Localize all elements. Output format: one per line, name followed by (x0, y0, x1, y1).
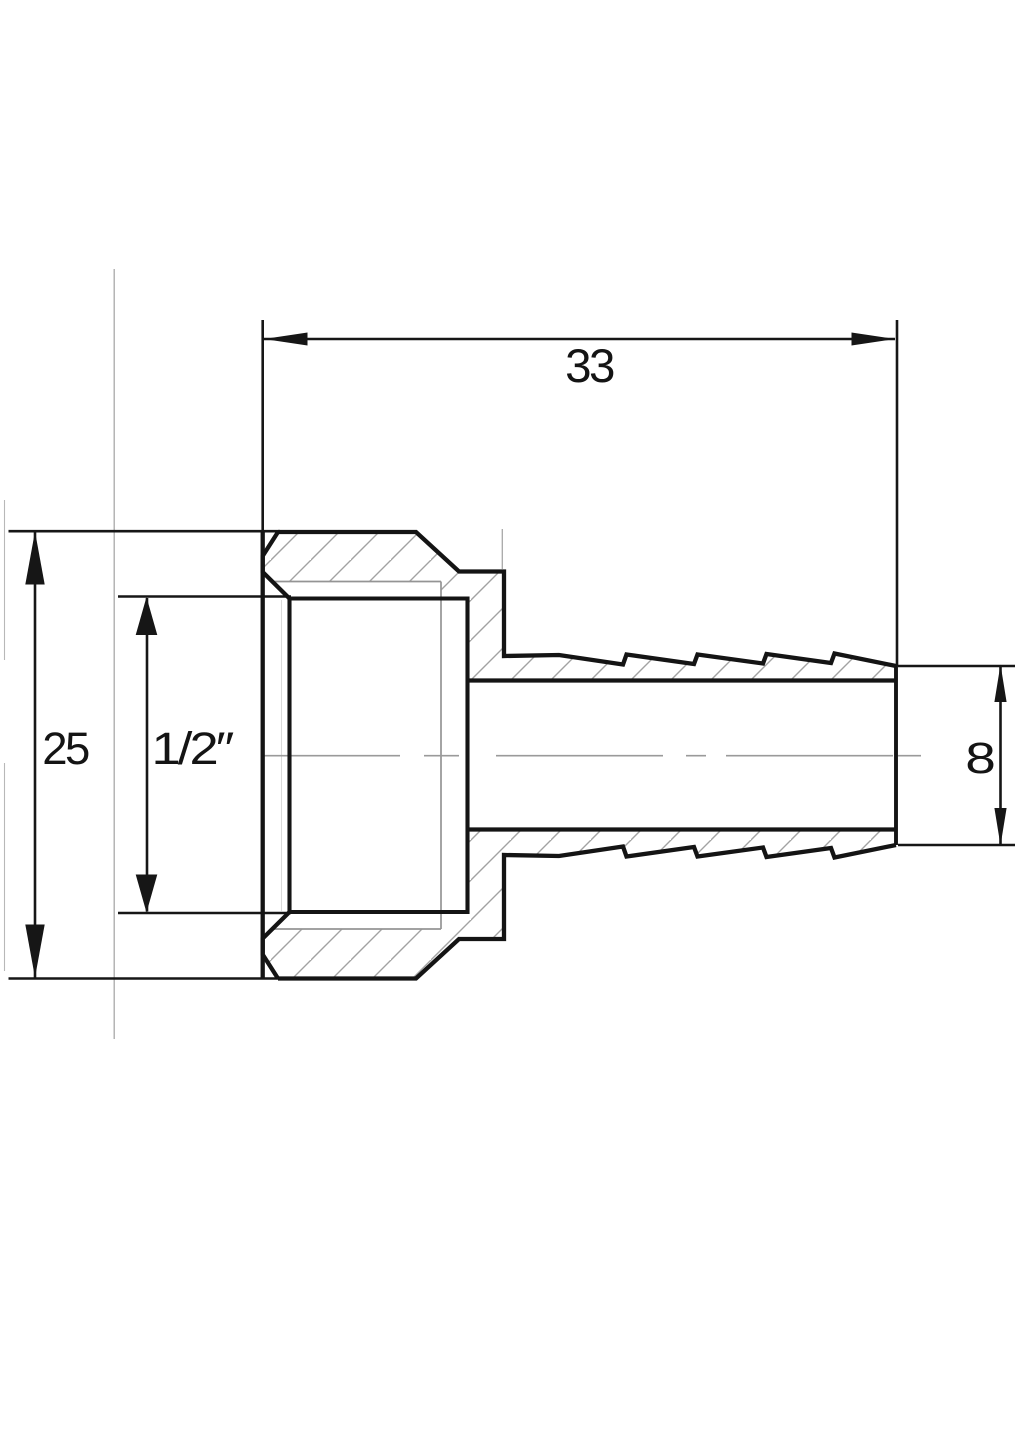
svg-text:1/2″: 1/2″ (152, 723, 235, 774)
svg-text:8: 8 (965, 733, 996, 782)
svg-text:25: 25 (42, 723, 89, 774)
svg-text:33: 33 (565, 340, 614, 393)
